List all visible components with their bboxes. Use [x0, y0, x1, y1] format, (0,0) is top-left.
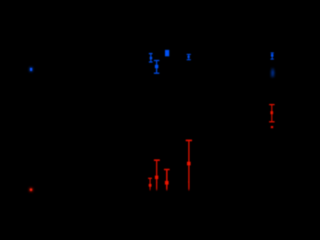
red point P14 (faint small dot below P13): [271, 126, 273, 128]
red point P10 (tall error bar, fading bottom): [154, 159, 160, 191]
red point P12 (tallest error bar, fading bottom): [186, 140, 192, 191]
red point P13 (error bar with caps, right column): [269, 104, 275, 122]
red point P11 (error bar, fading bottom): [164, 169, 170, 192]
blue box P4 (filled rectangle): [165, 50, 169, 56]
blue point P1 (lone dot, left): [29, 67, 32, 71]
red point P8 (lone dot, left): [29, 188, 33, 192]
blue point P2 (error bar): [149, 53, 153, 63]
blue point P7 (very blurry dim error bar, right column): [271, 68, 274, 76]
blue point P6 (blurry error bar, right column): [271, 52, 274, 59]
blue point P3 (error bar): [154, 60, 159, 74]
blue point P5 (error bar): [187, 54, 191, 60]
red point P9 (error bar, fading bottom): [148, 178, 152, 191]
